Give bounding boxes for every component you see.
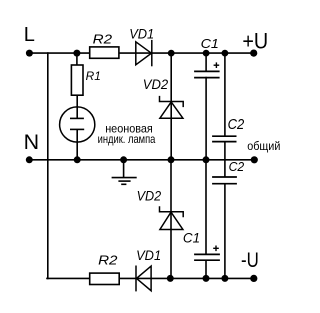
node junction VD2 top xyxy=(168,50,175,57)
node -U terminal dot xyxy=(250,275,257,282)
wire R1 branch xyxy=(76,53,78,65)
svg-text:L: L xyxy=(24,24,35,46)
wire lower VD2 branch xyxy=(170,160,172,279)
diode VD1 top xyxy=(136,40,152,66)
ground xyxy=(112,160,137,185)
node L terminal dot xyxy=(26,50,33,57)
svg-text:VD1: VD1 xyxy=(129,26,154,42)
svg-text:VD1: VD1 xyxy=(136,247,161,263)
capacitor C2 lower xyxy=(212,177,237,184)
plus sign C1 upper xyxy=(214,62,220,68)
node junction lamp bottom xyxy=(74,156,81,163)
capacitor C2 upper xyxy=(212,136,236,141)
node N terminal dot xyxy=(26,156,33,163)
svg-text:общий: общий xyxy=(247,139,280,153)
zener VD2 upper xyxy=(160,96,184,118)
svg-text:C1: C1 xyxy=(183,230,200,245)
capacitor C1 lower xyxy=(194,254,220,260)
svg-text:VD2: VD2 xyxy=(137,187,162,203)
node junction C2 top xyxy=(222,50,229,57)
node junction ground xyxy=(120,156,127,163)
wire upper C1 branch xyxy=(205,53,207,71)
resistor R2 top xyxy=(90,47,119,58)
capacitor C1 upper xyxy=(194,71,220,77)
wire lower C1 branch xyxy=(205,160,207,254)
neon lamp circle xyxy=(60,107,95,142)
svg-text:R2: R2 xyxy=(93,33,112,47)
node junction VD2 bottom xyxy=(167,275,174,282)
svg-text:C1: C1 xyxy=(201,36,219,51)
node junction C1 top xyxy=(203,50,210,57)
node junction C2 bottom xyxy=(221,275,228,282)
svg-text:-U: -U xyxy=(241,249,259,272)
neon lamp electrodes xyxy=(70,107,84,142)
resistor R1 xyxy=(71,65,83,95)
wire left branch vertical from L rail down to bottom rail xyxy=(47,53,49,278)
wire upper VD2 branch xyxy=(170,53,172,160)
svg-text:+U: +U xyxy=(242,28,268,53)
svg-text:N: N xyxy=(24,130,39,154)
wire C2 branch xyxy=(224,53,226,136)
node junction C1 middle xyxy=(203,156,210,163)
svg-text:R1: R1 xyxy=(86,69,101,83)
node junction VD2 middle xyxy=(168,156,175,163)
node junction C1 bottom xyxy=(203,275,210,282)
diode VD1 bottom xyxy=(136,266,151,292)
resistor R2 bottom xyxy=(90,273,120,284)
wire top rail L to +U xyxy=(29,52,89,54)
wire middle rail N to common xyxy=(29,159,254,161)
plus sign C1 lower xyxy=(213,246,219,252)
svg-text:индик. лампа: индик. лампа xyxy=(98,133,156,146)
node common terminal dot xyxy=(251,156,258,163)
node junction R1 top xyxy=(73,50,80,57)
wire bottom rail xyxy=(47,277,90,279)
svg-text:VD2: VD2 xyxy=(143,76,169,92)
svg-text:R2: R2 xyxy=(98,254,117,268)
node +U terminal dot xyxy=(250,50,257,57)
svg-text:C2: C2 xyxy=(228,117,245,133)
zener VD2 lower xyxy=(160,206,184,229)
svg-text:C2: C2 xyxy=(229,159,245,174)
